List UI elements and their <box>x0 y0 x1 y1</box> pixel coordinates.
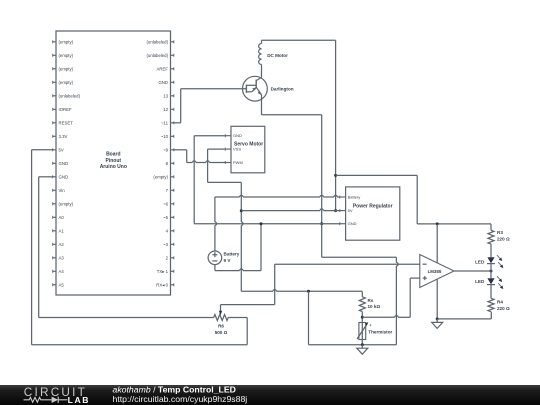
svg-text:LED: LED <box>475 259 485 264</box>
svg-text:~6: ~6 <box>163 201 169 206</box>
svg-text:220 Ω: 220 Ω <box>497 306 510 311</box>
svg-text:Darlington: Darlington <box>271 87 294 92</box>
svg-text:GND: GND <box>158 80 168 85</box>
svg-text:RESET: RESET <box>59 120 74 125</box>
svg-text:GND: GND <box>348 221 357 226</box>
svg-text:GND: GND <box>59 174 69 179</box>
svg-text:12: 12 <box>163 107 168 112</box>
svg-text:Battery: Battery <box>348 195 361 200</box>
svg-text:Aruino Uno: Aruino Uno <box>100 164 127 170</box>
svg-text:(empty): (empty) <box>59 39 74 44</box>
svg-text:4: 4 <box>370 324 372 328</box>
svg-text:(unlabeled): (unlabeled) <box>147 39 169 44</box>
svg-text:Rs: Rs <box>368 298 374 303</box>
svg-text:R4: R4 <box>497 299 503 304</box>
svg-text:Battery: Battery <box>224 251 240 256</box>
svg-text:(empty): (empty) <box>59 66 74 71</box>
svg-text:(empty): (empty) <box>59 80 74 85</box>
svg-text:10 kΩ: 10 kΩ <box>368 304 381 309</box>
svg-text:~5: ~5 <box>163 215 169 220</box>
svg-text:A1: A1 <box>59 228 65 233</box>
svg-text:R3: R3 <box>497 230 503 235</box>
svg-text:RX◂ 0: RX◂ 0 <box>156 282 168 287</box>
svg-text:IOREF: IOREF <box>59 107 73 112</box>
svg-text:A5: A5 <box>59 282 65 287</box>
svg-text:Power Regulator: Power Regulator <box>353 203 393 209</box>
svg-text:LAB: LAB <box>68 395 90 405</box>
svg-text:http://circuitlab.com/cyukp9hz: http://circuitlab.com/cyukp9hz9s88j <box>113 394 248 404</box>
svg-text:A0: A0 <box>59 215 65 220</box>
svg-text:Board: Board <box>106 152 120 158</box>
svg-text:A4: A4 <box>59 269 65 274</box>
svg-text:9 V: 9 V <box>224 258 232 263</box>
svg-text:Thermistor: Thermistor <box>368 330 392 335</box>
svg-text:220 Ω: 220 Ω <box>497 236 510 241</box>
svg-text:500 Ω: 500 Ω <box>215 330 228 335</box>
svg-text:LM385: LM385 <box>428 269 442 274</box>
svg-text:Servo Motor: Servo Motor <box>234 141 263 147</box>
svg-text:A3: A3 <box>59 255 65 260</box>
svg-text:Vin: Vin <box>59 188 66 193</box>
svg-text:GND: GND <box>233 133 242 138</box>
svg-text:(empty): (empty) <box>153 174 168 179</box>
svg-text:PWM: PWM <box>233 160 243 165</box>
svg-text:LED: LED <box>475 279 485 284</box>
svg-text:~11: ~11 <box>161 120 169 125</box>
svg-text:TX▸ 1: TX▸ 1 <box>157 269 169 274</box>
svg-text:A2: A2 <box>59 242 65 247</box>
svg-text:GND: GND <box>59 161 69 166</box>
svg-text:3.3V: 3.3V <box>59 134 68 139</box>
svg-text:(empty): (empty) <box>59 201 74 206</box>
svg-text:5V: 5V <box>59 147 64 152</box>
svg-text:(unlabeled): (unlabeled) <box>147 53 169 58</box>
svg-text:Pinout: Pinout <box>106 158 122 164</box>
svg-text:~3: ~3 <box>163 242 169 247</box>
svg-text:13: 13 <box>163 93 168 98</box>
svg-text:~9: ~9 <box>163 147 169 152</box>
svg-text:DC Motor: DC Motor <box>267 53 288 58</box>
svg-text:(unlabeled): (unlabeled) <box>59 93 81 98</box>
svg-text:AREF: AREF <box>157 66 169 71</box>
svg-text:~10: ~10 <box>161 134 169 139</box>
svg-text:(empty): (empty) <box>59 53 74 58</box>
svg-text:R6: R6 <box>218 324 224 329</box>
